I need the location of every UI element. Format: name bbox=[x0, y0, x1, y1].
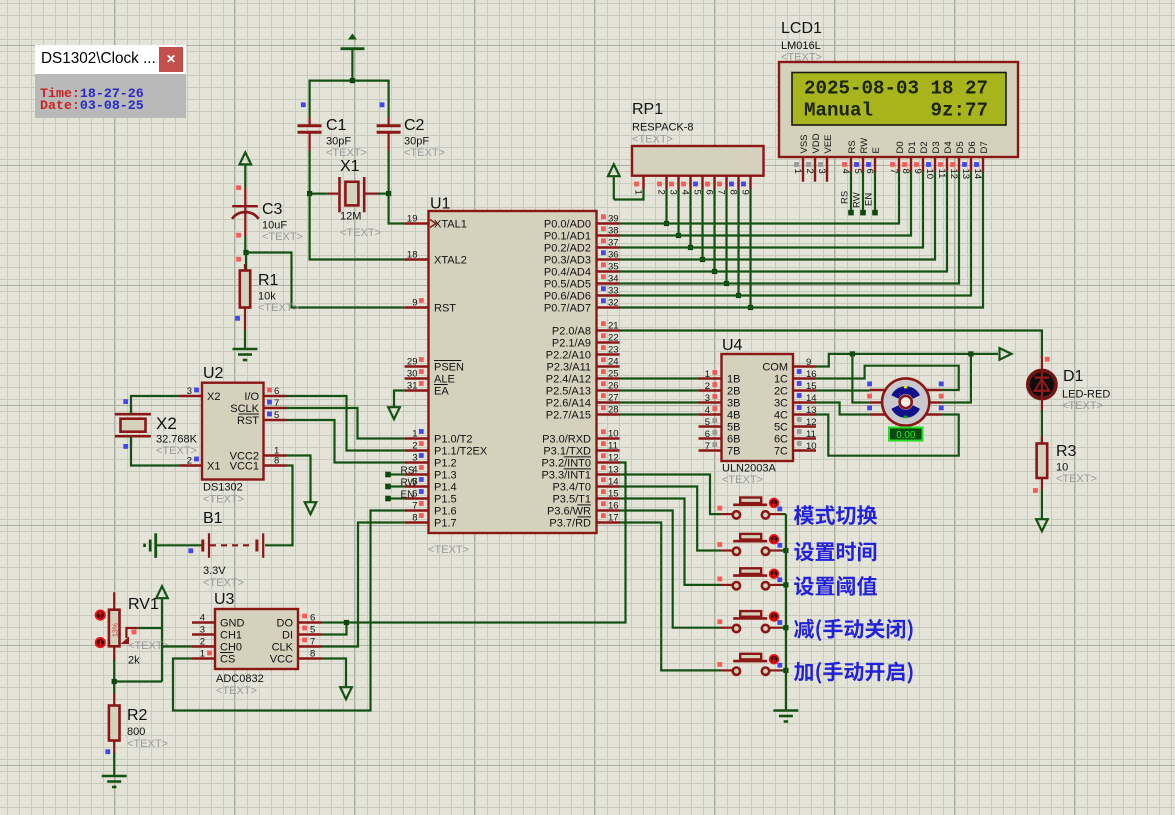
svg-text:D2: D2 bbox=[919, 141, 930, 153]
U1 pin 29 state square bbox=[419, 357, 424, 362]
U1 pin 21 P2.0/A8 bbox=[552, 321, 620, 338]
wire U4 COM to top rail bbox=[816, 354, 998, 367]
svg-text:<TEXT>: <TEXT> bbox=[258, 302, 299, 314]
svg-text:6: 6 bbox=[703, 190, 714, 195]
U4 pin 12 5C bbox=[774, 417, 817, 434]
svg-text:VSS: VSS bbox=[799, 134, 810, 153]
svg-text:DI: DI bbox=[282, 630, 293, 642]
junction RP1 pin 8 bbox=[736, 293, 741, 298]
svg-text:12: 12 bbox=[608, 453, 619, 464]
U4 pin 7 7B bbox=[699, 441, 741, 458]
svg-text:D0: D0 bbox=[895, 141, 906, 153]
svg-text:LED-RED: LED-RED bbox=[1062, 389, 1110, 401]
svg-text:P1.3: P1.3 bbox=[434, 470, 457, 482]
svg-text:P0.2/AD2: P0.2/AD2 bbox=[544, 243, 591, 255]
LCD pin 1 VSS bbox=[792, 134, 810, 173]
svg-text:8: 8 bbox=[900, 169, 911, 174]
svg-text:U2: U2 bbox=[203, 365, 224, 382]
svg-text:1B: 1B bbox=[727, 374, 740, 386]
svg-text:XTAL1: XTAL1 bbox=[434, 219, 467, 231]
svg-text:P3.3/INT1: P3.3/INT1 bbox=[541, 470, 591, 482]
svg-text:P2.0/A8: P2.0/A8 bbox=[552, 326, 591, 338]
wire LCD EN bbox=[864, 172, 878, 216]
svg-text:9: 9 bbox=[806, 357, 811, 368]
svg-text:VCC: VCC bbox=[270, 654, 293, 666]
svg-text:RS: RS bbox=[401, 466, 415, 477]
wire RP1 pin 7 to P0.5 bbox=[725, 189, 727, 284]
svg-text:D1: D1 bbox=[1063, 368, 1084, 385]
wire RP1 pin 3 to P0.1 bbox=[677, 189, 679, 236]
U1 XTAL1 clock mark bbox=[430, 220, 436, 228]
label 减(手动关闭) bbox=[794, 619, 913, 641]
U1 pin 23 P2.2/A10 bbox=[546, 345, 620, 362]
svg-text:13%: 13% bbox=[112, 623, 119, 637]
U1 pin 14 state square bbox=[601, 477, 606, 482]
svg-text:<TEXT>: <TEXT> bbox=[262, 231, 303, 243]
U1 pin 1 state square bbox=[419, 429, 424, 434]
svg-text:ULN2003A: ULN2003A bbox=[722, 463, 776, 475]
svg-text:33: 33 bbox=[608, 286, 619, 297]
power terminal (RV1) bbox=[156, 586, 168, 681]
U4 pin 14 3C bbox=[774, 393, 817, 410]
svg-text:<TEXT>: <TEXT> bbox=[340, 227, 381, 239]
svg-text:10: 10 bbox=[1056, 462, 1068, 474]
LCD pin 13 D6 bbox=[960, 141, 978, 179]
U1 pin 33 P0.6/AD6 bbox=[544, 286, 620, 303]
svg-text:39: 39 bbox=[608, 214, 619, 225]
svg-text:C3: C3 bbox=[262, 201, 283, 218]
svg-text:DS1302: DS1302 bbox=[203, 482, 243, 494]
C2 floating-net square bbox=[380, 102, 385, 107]
svg-text:6: 6 bbox=[705, 429, 710, 440]
svg-text:7: 7 bbox=[412, 501, 417, 512]
U1 pin 10 P3.0/RXD bbox=[542, 429, 619, 446]
svg-text:10: 10 bbox=[608, 429, 619, 440]
svg-text:1C: 1C bbox=[774, 374, 788, 386]
wire U2 VCC2 to ground arrow bbox=[287, 456, 311, 502]
motor right leads bbox=[923, 390, 941, 415]
svg-text:<TEXT>: <TEXT> bbox=[428, 544, 469, 556]
U3 ADC0832 body bbox=[215, 609, 298, 669]
svg-text:5: 5 bbox=[310, 625, 315, 636]
svg-text:13: 13 bbox=[806, 405, 817, 416]
svg-text:15: 15 bbox=[806, 381, 817, 392]
junction COM left bbox=[850, 351, 855, 356]
button SW3 bbox=[721, 568, 782, 589]
svg-text:RW: RW bbox=[401, 478, 418, 489]
ground arrow (EA) bbox=[388, 407, 400, 419]
svg-text:8: 8 bbox=[412, 513, 417, 524]
junction RP1 pin 4 bbox=[688, 245, 693, 250]
LCD screen bbox=[792, 73, 1006, 126]
svg-text:VDD: VDD bbox=[811, 133, 822, 153]
svg-text:LM016L: LM016L bbox=[781, 40, 821, 52]
junction RP1 pin 5 bbox=[700, 257, 705, 262]
svg-text:2: 2 bbox=[187, 456, 192, 467]
U1 pin 4 P1.3 bbox=[405, 465, 457, 482]
svg-text:27: 27 bbox=[608, 393, 619, 404]
battery square bbox=[188, 548, 193, 553]
junction bus button 3 bbox=[783, 582, 788, 587]
svg-text:3: 3 bbox=[200, 625, 205, 636]
svg-text:RESPACK-8: RESPACK-8 bbox=[632, 122, 694, 134]
svg-text:19: 19 bbox=[407, 214, 418, 225]
RV1 wiper bbox=[121, 628, 139, 644]
U1 pin 15 state square bbox=[601, 489, 606, 494]
wire P0.4 to LCD D4 bbox=[620, 172, 948, 272]
battery B1 bbox=[203, 533, 263, 558]
net label RS (P1.3) bbox=[385, 466, 415, 478]
U1 pin 34 state square bbox=[601, 274, 606, 279]
U3 pin 2 CH0 bbox=[192, 637, 242, 654]
svg-text:P0.6/AD6: P0.6/AD6 bbox=[544, 291, 591, 303]
wire P0.2 to LCD D2 bbox=[620, 172, 924, 248]
op-amp U1 body (MCU 8051) bbox=[429, 211, 597, 533]
svg-text:23: 23 bbox=[608, 345, 619, 356]
U1 pin 21 state square bbox=[601, 321, 606, 326]
svg-text:P1.1/T2EX: P1.1/T2EX bbox=[434, 446, 488, 458]
svg-text:25: 25 bbox=[608, 369, 619, 380]
svg-text:16: 16 bbox=[608, 501, 619, 512]
svg-text:24: 24 bbox=[608, 357, 619, 368]
svg-text:3.3V: 3.3V bbox=[203, 565, 226, 577]
power terminal (RP1 pin1) bbox=[608, 164, 620, 199]
svg-text:37: 37 bbox=[608, 238, 619, 249]
wire P2.6 to U4 3B bbox=[620, 401, 699, 403]
button SW1 squares bbox=[717, 506, 722, 511]
LCD pin 14 D7 bbox=[972, 141, 990, 179]
RP1 pin 2 bbox=[655, 176, 666, 195]
svg-text:RP1: RP1 bbox=[632, 101, 663, 118]
svg-text:7: 7 bbox=[310, 637, 315, 648]
svg-text:34: 34 bbox=[608, 274, 619, 285]
U1 pin 8 P1.7 bbox=[405, 513, 457, 530]
capacitor C3 (polarized) bbox=[232, 189, 259, 253]
U1 pin 33 state square bbox=[601, 286, 606, 291]
svg-text:P1.7: P1.7 bbox=[434, 518, 457, 530]
U1 pin 34 P0.5/AD5 bbox=[544, 274, 620, 291]
U1 pin 32 P0.7/AD7 bbox=[544, 298, 620, 315]
svg-text:30: 30 bbox=[407, 369, 418, 380]
svg-text:5: 5 bbox=[691, 190, 702, 195]
svg-text:P3.4/T0: P3.4/T0 bbox=[552, 482, 591, 494]
svg-text:P1.0/T2: P1.0/T2 bbox=[434, 434, 473, 446]
svg-text:X2: X2 bbox=[156, 414, 177, 433]
svg-text:<TEXT>: <TEXT> bbox=[203, 577, 244, 589]
svg-text:7B: 7B bbox=[727, 446, 740, 458]
wire U4 1C to motor right-top bbox=[816, 366, 959, 390]
U1 pin 27 state square bbox=[601, 393, 606, 398]
button SW2 knob bbox=[770, 535, 779, 544]
capacitor C1 bbox=[298, 81, 322, 194]
svg-text:2B: 2B bbox=[727, 386, 740, 398]
U1 pin 24 P2.3/A11 bbox=[547, 357, 620, 374]
svg-text:10uF: 10uF bbox=[262, 220, 287, 232]
svg-text:2025-08-03 18 27: 2025-08-03 18 27 bbox=[804, 78, 988, 100]
wire X1 right net bbox=[377, 193, 390, 195]
ground (top, above C1/C2) bbox=[341, 34, 365, 82]
junction RP1 pin 9 bbox=[748, 305, 753, 310]
button SW2 squares bbox=[717, 542, 722, 547]
U1 pin 5 P1.4 bbox=[405, 477, 457, 494]
U1 pin 30 state square bbox=[419, 369, 424, 374]
ground (battery left, rotated) bbox=[145, 533, 156, 558]
U1 pin 28 P2.7/A15 bbox=[546, 405, 620, 422]
svg-text:<TEXT>: <TEXT> bbox=[632, 134, 673, 146]
U1 pin 35 P0.4/AD4 bbox=[544, 262, 620, 279]
wire X1 left net bbox=[309, 193, 327, 195]
U1 pin 3 state square bbox=[419, 453, 424, 458]
U4 pin 16 1C bbox=[774, 369, 817, 386]
svg-text:<TEXT>: <TEXT> bbox=[404, 147, 445, 159]
RP1 pin 3 bbox=[667, 176, 678, 195]
U4 pin 9 COM bbox=[762, 357, 816, 374]
U1 pin 6 state square bbox=[419, 489, 424, 494]
U2 pin 7 SCLK bbox=[230, 398, 286, 415]
U2 pin 1 VCC2 bbox=[230, 446, 287, 463]
svg-text:P3.6/WR: P3.6/WR bbox=[547, 506, 591, 518]
U1 pin 13 P3.3/INT1 bbox=[541, 465, 619, 482]
svg-text:CH1: CH1 bbox=[220, 630, 242, 642]
svg-text:12: 12 bbox=[806, 417, 817, 428]
svg-text:38: 38 bbox=[608, 226, 619, 237]
svg-text:P2.4/A12: P2.4/A12 bbox=[546, 374, 591, 386]
svg-text:7: 7 bbox=[715, 190, 726, 195]
svg-text:P0.0/AD0: P0.0/AD0 bbox=[544, 219, 591, 231]
svg-text:P3.2/INT0: P3.2/INT0 bbox=[541, 458, 591, 470]
junction DO/DI bbox=[344, 620, 349, 625]
junction bus button 2 bbox=[783, 548, 788, 553]
svg-text:9: 9 bbox=[412, 298, 417, 309]
svg-text:3: 3 bbox=[187, 386, 192, 397]
ground arrow (R3) bbox=[1036, 519, 1048, 531]
wire CH0 to RV1 net bbox=[162, 645, 192, 647]
svg-text:1: 1 bbox=[412, 429, 417, 440]
svg-text:RS: RS bbox=[840, 191, 851, 204]
wire button 4 to bus bbox=[782, 627, 786, 629]
svg-text:U3: U3 bbox=[214, 591, 235, 608]
LCD pin 8 D1 bbox=[900, 141, 918, 173]
label 设置时间 bbox=[794, 542, 876, 562]
svg-text:D1: D1 bbox=[907, 141, 918, 153]
U1 pin 12 state square bbox=[601, 453, 606, 458]
U2 pin 6 I/O bbox=[244, 386, 286, 403]
svg-text:2C: 2C bbox=[774, 386, 788, 398]
U4 pin 5 5B bbox=[699, 417, 741, 434]
U3 pin 5 DI bbox=[282, 625, 321, 642]
wire U1 P3.4 to button 2 bbox=[620, 487, 721, 551]
ground (buttons) bbox=[773, 711, 798, 722]
wire U3 VCC to arrow bbox=[321, 659, 346, 687]
wire U4 4C to motor right-bottom bbox=[816, 415, 959, 456]
wire X2 bottom to U2 pin2 bbox=[131, 437, 180, 466]
R1 top square bbox=[236, 257, 241, 262]
wire RP1 pin 2 to P0.0 bbox=[665, 189, 667, 224]
motor M1 (stepper) bbox=[882, 378, 929, 425]
junction RV1/R2 bbox=[112, 679, 117, 684]
COM rail arrow bbox=[1000, 348, 1012, 360]
svg-text:11: 11 bbox=[936, 169, 947, 179]
wire P0.7 to LCD D7 bbox=[620, 172, 984, 308]
U1 pin 17 P3.7/RD bbox=[549, 513, 619, 530]
svg-text:P3.7/RD: P3.7/RD bbox=[549, 518, 591, 530]
label 模式切换 bbox=[794, 505, 877, 525]
svg-text:16: 16 bbox=[806, 369, 817, 380]
svg-text:U4: U4 bbox=[722, 337, 743, 354]
wire LCD RW bbox=[852, 172, 866, 216]
LCD pin 7 D0 bbox=[888, 141, 906, 173]
svg-text:C1: C1 bbox=[326, 117, 347, 134]
U1 pin 26 P2.5/A13 bbox=[546, 381, 620, 398]
button SW4 knob bbox=[770, 612, 779, 621]
svg-text:7: 7 bbox=[274, 398, 279, 409]
svg-text:ADC0832: ADC0832 bbox=[216, 673, 264, 685]
wire P2.7 to U4 4B bbox=[620, 413, 699, 415]
svg-text:CS: CS bbox=[220, 654, 235, 666]
svg-text:VCC1: VCC1 bbox=[230, 461, 259, 473]
U3 pin 6 DO bbox=[277, 613, 322, 630]
svg-text:4B: 4B bbox=[727, 410, 740, 422]
wire button 2 to bus bbox=[782, 549, 786, 551]
resistor R2 bbox=[109, 693, 120, 776]
junction RP1 pin 3 bbox=[676, 233, 681, 238]
junction C3/R1/RST bbox=[243, 250, 248, 255]
crystal X1 bbox=[327, 177, 377, 212]
svg-text:D5: D5 bbox=[955, 141, 966, 153]
svg-text:PSEN: PSEN bbox=[434, 362, 464, 374]
RV1 wiper wire bbox=[138, 627, 162, 629]
U1 pin 32 state square bbox=[601, 298, 606, 303]
svg-text:6C: 6C bbox=[774, 434, 788, 446]
U1 pin 31 state square bbox=[419, 381, 424, 386]
U1 pin 11 state square bbox=[601, 441, 606, 446]
U1 pin 38 state square bbox=[601, 226, 606, 231]
U2 pin 8 VCC1 bbox=[230, 456, 287, 473]
svg-text:30pF: 30pF bbox=[404, 136, 429, 148]
svg-text:9z:77: 9z:77 bbox=[931, 100, 989, 122]
U1 pin 18 XTAL2 bbox=[405, 250, 467, 267]
U1 pin 12 P3.2/INT0 bbox=[541, 453, 619, 470]
resistor R1 bbox=[240, 253, 250, 350]
U1 pin 22 P2.1/A9 bbox=[552, 333, 620, 350]
svg-text:5: 5 bbox=[274, 410, 279, 421]
LCD pin 9 D2 bbox=[912, 141, 930, 173]
wire R3 to ground arrow bbox=[1041, 490, 1043, 518]
svg-text:10: 10 bbox=[806, 441, 817, 452]
svg-text:RS: RS bbox=[847, 140, 858, 153]
svg-text:D3: D3 bbox=[931, 141, 942, 153]
R3 bottom square bbox=[1033, 488, 1038, 493]
wire ground to battery bbox=[156, 544, 203, 546]
R2 bottom square bbox=[105, 749, 110, 754]
svg-text:8: 8 bbox=[274, 456, 279, 467]
svg-text:800: 800 bbox=[127, 726, 145, 738]
svg-text:26: 26 bbox=[608, 381, 619, 392]
svg-text:10: 10 bbox=[924, 169, 935, 180]
svg-text:9: 9 bbox=[912, 169, 923, 174]
RP1 pin 1 bbox=[632, 176, 643, 195]
svg-text:7: 7 bbox=[705, 441, 710, 452]
U1 pin 36 P0.3/AD3 bbox=[544, 250, 620, 267]
button SW2 bbox=[721, 534, 782, 555]
svg-text:RST: RST bbox=[237, 415, 259, 427]
svg-text:P1.4: P1.4 bbox=[434, 482, 457, 494]
svg-text:14: 14 bbox=[608, 477, 619, 488]
LCD pin 4 RS bbox=[840, 140, 858, 174]
wire RV1 bottom to R2 bbox=[114, 660, 162, 693]
svg-text:DO: DO bbox=[277, 618, 294, 630]
svg-text:32: 32 bbox=[608, 298, 619, 309]
LCD pins 1-3 stubs bbox=[802, 172, 804, 182]
wire button 3 to bus bbox=[782, 584, 786, 586]
button SW5 knob bbox=[770, 655, 779, 664]
svg-text:5C: 5C bbox=[774, 422, 788, 434]
svg-text:P0.1/AD1: P0.1/AD1 bbox=[544, 231, 591, 243]
C1 floating-net square bbox=[301, 102, 306, 107]
svg-text:3: 3 bbox=[816, 169, 827, 174]
svg-text:P0.7/AD7: P0.7/AD7 bbox=[544, 303, 591, 315]
RP1 pin 9 bbox=[739, 176, 750, 195]
wire U3 DO to U1 P3.2 bbox=[321, 463, 626, 623]
svg-text:17: 17 bbox=[608, 513, 619, 524]
RP1 pin 8 bbox=[727, 176, 738, 195]
RP1 pin 6 bbox=[703, 176, 714, 195]
U3 pin 7 CLK bbox=[272, 637, 321, 654]
junction bus button 5 bbox=[783, 668, 788, 673]
svg-text:32.768K: 32.768K bbox=[156, 434, 198, 446]
RP1 RESPACK-8 body bbox=[632, 146, 764, 176]
U1 pin 35 state square bbox=[601, 262, 606, 267]
svg-text:CH0: CH0 bbox=[220, 642, 242, 654]
U4 pin 15 2C bbox=[774, 381, 817, 398]
wire RP1 pin 9 to P0.7 bbox=[749, 189, 751, 308]
svg-text:3B: 3B bbox=[727, 398, 740, 410]
svg-text:RW: RW bbox=[852, 192, 863, 208]
svg-text:14: 14 bbox=[972, 169, 983, 180]
crystal X2 bbox=[115, 405, 151, 446]
svg-text:4: 4 bbox=[840, 169, 851, 174]
capacitor C2 bbox=[377, 81, 401, 194]
svg-text:1: 1 bbox=[632, 190, 643, 195]
svg-text:35: 35 bbox=[608, 262, 619, 273]
wire P0.5 to LCD D5 bbox=[620, 172, 960, 284]
svg-text:P0.4/AD4: P0.4/AD4 bbox=[544, 267, 591, 279]
svg-text:RV1: RV1 bbox=[128, 596, 159, 613]
U2 DS1302 body bbox=[202, 383, 264, 480]
svg-text:<TEXT>: <TEXT> bbox=[722, 474, 763, 486]
svg-text:P1.5: P1.5 bbox=[434, 494, 457, 506]
wire COM to motor right-middle bbox=[941, 354, 971, 403]
svg-text:15: 15 bbox=[608, 489, 619, 500]
junction X1 right bbox=[386, 191, 391, 196]
U1 pin 2 state square bbox=[419, 441, 424, 446]
svg-text:SCLK: SCLK bbox=[230, 403, 259, 415]
ground (R2) bbox=[102, 776, 127, 787]
svg-text:2: 2 bbox=[705, 381, 710, 392]
svg-text:P2.1/A9: P2.1/A9 bbox=[552, 338, 591, 350]
svg-text:4C: 4C bbox=[774, 410, 788, 422]
svg-text:P0.3/AD3: P0.3/AD3 bbox=[544, 255, 591, 267]
U1 pin 23 state square bbox=[601, 345, 606, 350]
U1 pin 37 state square bbox=[601, 238, 606, 243]
junction RP1 pin 7 bbox=[724, 281, 729, 286]
svg-text:<TEXT>: <TEXT> bbox=[216, 685, 257, 697]
svg-text:6B: 6B bbox=[727, 434, 740, 446]
U1 pin 8 state square bbox=[419, 513, 424, 518]
button common bus bbox=[785, 514, 787, 710]
svg-text:X2: X2 bbox=[207, 391, 220, 403]
motor speed display bbox=[889, 428, 923, 442]
